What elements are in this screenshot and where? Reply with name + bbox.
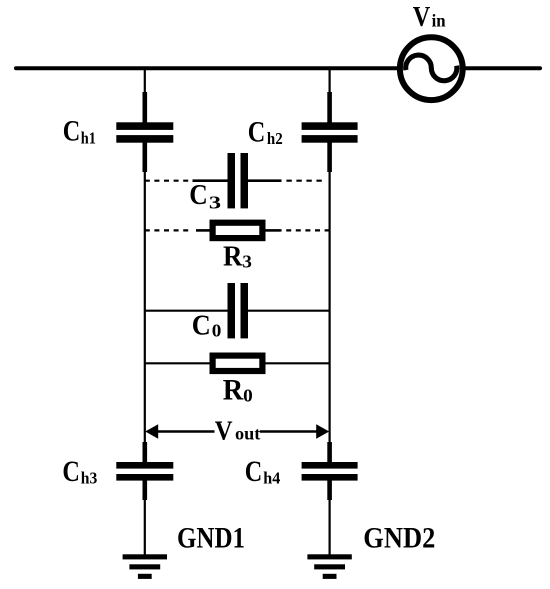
svg-text:in: in bbox=[432, 11, 446, 31]
svg-text:C: C bbox=[62, 455, 80, 488]
svg-text:h1: h1 bbox=[81, 128, 96, 147]
wire C3 branch dashed right bbox=[286, 180, 322, 182]
wire C3 branch solid right bbox=[247, 179, 282, 182]
svg-text:0: 0 bbox=[243, 386, 253, 406]
wire R3 branch solid left bbox=[196, 229, 211, 232]
svg-text:GND1: GND1 bbox=[177, 522, 245, 555]
capacitor C3 bbox=[228, 153, 249, 208]
wire R3 branch dashed right bbox=[281, 229, 330, 231]
svg-text:C: C bbox=[245, 455, 263, 488]
svg-text:out: out bbox=[235, 424, 260, 444]
wire thick stub above Ch3 bbox=[143, 442, 148, 463]
wire right rail middle bbox=[329, 138, 331, 465]
wire C0 branch right bbox=[247, 310, 330, 312]
wire thick stub above Ch1 bbox=[143, 92, 148, 124]
node Vout arrow right head bbox=[316, 424, 329, 438]
wire C3 branch solid left bbox=[193, 179, 229, 182]
svg-text:h2: h2 bbox=[267, 129, 283, 148]
wire top bus bbox=[16, 66, 540, 70]
capacitor C0 bbox=[228, 283, 249, 338]
node Vout arrow left head bbox=[145, 424, 158, 438]
svg-text:C: C bbox=[192, 310, 211, 342]
ground GND1 symbol bbox=[123, 554, 167, 579]
svg-text:h3: h3 bbox=[81, 469, 98, 488]
resistor R0 bbox=[213, 356, 263, 371]
svg-text:3: 3 bbox=[209, 193, 221, 213]
capacitor Ch3 bbox=[116, 462, 173, 481]
svg-text:GND2: GND2 bbox=[363, 522, 435, 555]
wire R0 branch right bbox=[265, 362, 330, 364]
wire R3 branch solid right bbox=[265, 229, 281, 232]
resistor R3 bbox=[213, 223, 263, 238]
wire left rail lower bbox=[144, 477, 146, 555]
svg-text:3: 3 bbox=[242, 251, 252, 271]
svg-text:C: C bbox=[63, 115, 80, 148]
wire thick stub below Ch2 bbox=[327, 142, 332, 172]
svg-text:R: R bbox=[223, 241, 243, 273]
wire C0 branch left bbox=[145, 310, 229, 312]
wire right rail upper bbox=[329, 68, 331, 126]
wire Vout arrow left segment bbox=[157, 430, 215, 432]
wire R0 branch left bbox=[145, 362, 211, 364]
wire left rail upper bbox=[144, 68, 146, 126]
wire thick stub above Ch2 bbox=[327, 92, 332, 124]
svg-text:C: C bbox=[248, 115, 265, 148]
ground GND2 symbol bbox=[307, 554, 351, 579]
capacitor Ch1 bbox=[116, 122, 173, 142]
wire left rail middle bbox=[144, 138, 146, 465]
svg-text:C: C bbox=[189, 179, 208, 211]
wire thick stub below Ch4 bbox=[327, 479, 332, 500]
svg-text:0: 0 bbox=[212, 321, 222, 341]
capacitor Ch2 bbox=[302, 122, 358, 142]
wire R3 branch dashed left bbox=[145, 229, 190, 231]
wire C3 branch dashed left bbox=[145, 180, 193, 182]
wire right rail lower bbox=[329, 477, 331, 555]
wire thick stub below Ch1 bbox=[143, 142, 148, 172]
source Vin AC bbox=[400, 37, 463, 100]
svg-text:R: R bbox=[223, 374, 244, 407]
svg-text:h4: h4 bbox=[263, 469, 280, 488]
svg-text:V: V bbox=[215, 415, 233, 445]
wire thick stub below Ch3 bbox=[143, 479, 148, 500]
wire Vout arrow right segment bbox=[260, 430, 318, 432]
svg-text:V: V bbox=[413, 2, 431, 33]
capacitor Ch4 bbox=[302, 462, 358, 481]
wire thick stub above Ch4 bbox=[327, 442, 332, 463]
